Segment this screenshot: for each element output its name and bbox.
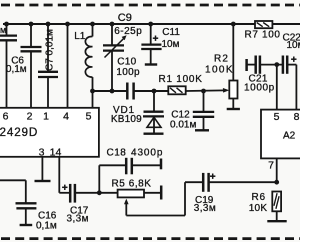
svg-text:10м: 10м <box>287 40 301 51</box>
svg-text:R5 6,8K: R5 6,8K <box>112 178 152 189</box>
svg-text:4300p: 4300p <box>131 148 163 159</box>
svg-text:C9: C9 <box>118 12 132 24</box>
svg-text:7: 7 <box>268 160 274 172</box>
svg-text:R2: R2 <box>214 54 229 65</box>
svg-text:1000p: 1000p <box>244 83 275 94</box>
svg-text:3,3м: 3,3м <box>194 203 216 214</box>
svg-text:0,1м: 0,1м <box>6 64 27 75</box>
svg-text:4: 4 <box>63 111 69 123</box>
svg-text:L1: L1 <box>74 31 86 42</box>
svg-text:м: м <box>0 25 6 35</box>
svg-text:100p: 100p <box>116 67 140 78</box>
svg-text:2: 2 <box>27 111 33 123</box>
svg-text:5: 5 <box>274 111 280 123</box>
svg-text:6-25p: 6-25p <box>114 26 142 37</box>
svg-text:C7 0,01м: C7 0,01м <box>45 29 56 71</box>
svg-text:KB109: KB109 <box>111 114 142 125</box>
svg-text:C11: C11 <box>162 27 180 38</box>
svg-text:10K: 10K <box>249 203 268 214</box>
svg-text:1: 1 <box>43 111 49 123</box>
svg-text:R6: R6 <box>252 192 266 203</box>
svg-text:R1 100K: R1 100K <box>159 74 203 85</box>
svg-text:R7 100: R7 100 <box>245 30 281 41</box>
svg-text:C18: C18 <box>107 148 127 159</box>
svg-text:5: 5 <box>86 111 92 123</box>
svg-text:3,3м: 3,3м <box>67 214 89 225</box>
svg-text:A2: A2 <box>283 131 296 142</box>
svg-text:0.01м: 0.01м <box>170 119 196 130</box>
svg-text:100K: 100K <box>205 65 234 76</box>
svg-text:2429D: 2429D <box>0 126 38 139</box>
svg-text:0,1м: 0,1м <box>36 220 57 231</box>
svg-text:8: 8 <box>294 111 300 123</box>
svg-text:10м: 10м <box>162 39 180 50</box>
svg-text:6: 6 <box>3 111 9 123</box>
